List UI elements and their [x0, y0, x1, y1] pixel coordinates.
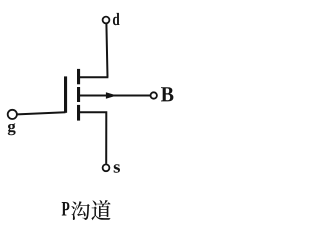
caption letter P outline [62, 202, 70, 216]
arrow head on body wire pointing right (P-channel) [106, 92, 117, 98]
channel bar top segment (drain side) [77, 69, 80, 84]
wire gate lead: from g circle to bottom of gate bar [17, 112, 65, 114]
wire body lead: from channel middle bar to B circle [79, 95, 150, 97]
channel bar bottom segment (source side) [77, 105, 80, 121]
terminal circle g (gate) [8, 110, 17, 119]
wire source lead: right from channel bottom bar then down to s circle [79, 111, 106, 164]
caption hanzi DAO (way) outline [91, 200, 110, 220]
channel bar middle segment (bulk tap) [77, 87, 80, 102]
caption hanzi GOU (channel) outline [71, 201, 90, 220]
terminal circle d (drain) [103, 17, 110, 24]
wire drain lead: down from d circle then left to channel top bar [79, 24, 108, 78]
label s (source) outline [114, 164, 120, 172]
gate bar (gate electrode) [64, 76, 67, 112]
label d (drain) outline [113, 13, 120, 25]
label g (gate) outline [8, 123, 16, 135]
terminal circle s (source) [103, 164, 110, 171]
label B (bulk) outline [161, 87, 173, 101]
terminal circle B (bulk) [151, 92, 157, 98]
